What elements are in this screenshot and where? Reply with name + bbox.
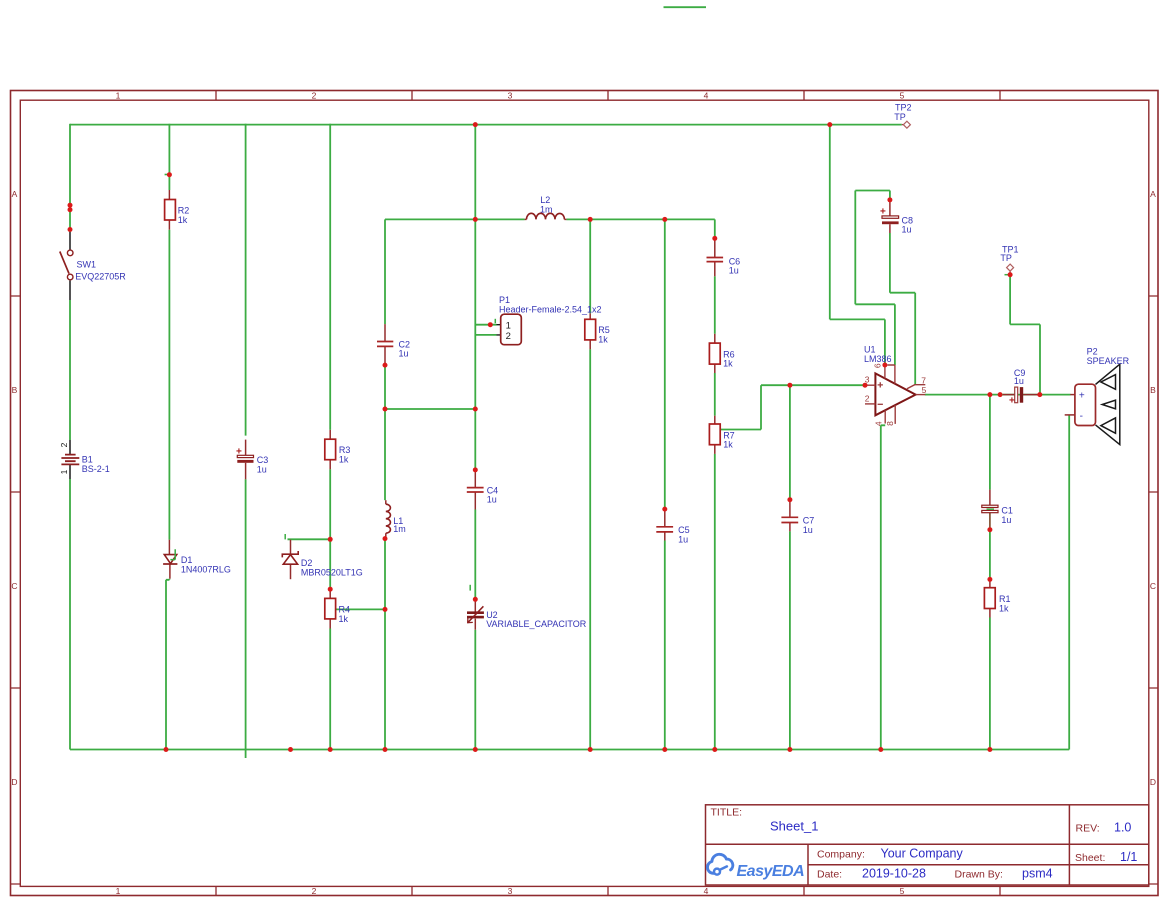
wire R5 to rail <box>589 349 591 749</box>
switch SW1 <box>60 232 126 300</box>
capacitor C6 <box>707 238 741 276</box>
capacitor C1 <box>982 490 1013 530</box>
node rail / L1 <box>383 747 388 752</box>
node C8 top <box>887 197 892 202</box>
node L2 rail / C5 <box>662 217 667 222</box>
node R4 top <box>328 587 333 592</box>
node C4 top <box>473 467 478 472</box>
node U2 top <box>473 597 478 602</box>
svg-text:1u: 1u <box>1014 376 1024 386</box>
svg-text:Sheet:: Sheet: <box>1075 852 1105 864</box>
svg-text:B: B <box>12 385 18 395</box>
node pin3 wire / C7 <box>787 383 792 388</box>
wire C4 to U2 <box>474 510 476 600</box>
node L1 bottom <box>383 536 388 541</box>
svg-text:SPEAKER: SPEAKER <box>1087 356 1130 366</box>
wire C3 column top <box>245 124 247 436</box>
node rail / U1 gnd <box>878 747 883 752</box>
inductor L1 <box>386 500 406 538</box>
capacitor C8 <box>880 200 913 235</box>
svg-text:LM386: LM386 <box>864 354 892 364</box>
svg-text:D: D <box>11 777 17 787</box>
svg-text:B: B <box>1150 385 1156 395</box>
svg-text:BS-2-1: BS-2-1 <box>82 464 110 474</box>
wire D2 top link <box>288 538 331 540</box>
svg-text:1u: 1u <box>1001 515 1011 525</box>
wire C5 column top <box>664 219 666 509</box>
svg-text:D1: D1 <box>181 555 193 565</box>
node L2 rail / R5 <box>588 217 593 222</box>
EasyEDA logo <box>707 854 732 874</box>
capacitor C2 <box>377 324 410 364</box>
svg-text:7: 7 <box>921 375 926 385</box>
wire D1 jog <box>166 579 169 750</box>
node U1 pin3 <box>863 383 868 388</box>
node rail / C5 <box>662 747 667 752</box>
row tick marks <box>11 296 1159 884</box>
svg-text:1k: 1k <box>339 455 349 465</box>
wire TP1 riser lower <box>1039 324 1041 394</box>
wire C6 column corner <box>714 219 716 238</box>
node R2 top <box>167 172 172 177</box>
speaker P2 <box>1065 347 1130 445</box>
resistor R7 <box>709 416 734 454</box>
test point TP2 <box>894 103 911 129</box>
wire link to L1 <box>384 409 386 500</box>
svg-text:1m: 1m <box>393 524 406 534</box>
node rail / R7 <box>712 747 717 752</box>
diode D1 <box>163 540 231 579</box>
inductor L2 <box>525 195 567 219</box>
wire R5 column top <box>589 219 591 313</box>
node top rail / U1 supply <box>827 122 832 127</box>
svg-text:2: 2 <box>312 91 317 101</box>
test point TP1 <box>1000 245 1018 275</box>
wire C5 to rail <box>664 541 666 750</box>
svg-text:MBR0520LT1G: MBR0520LT1G <box>301 567 363 577</box>
svg-text:1u: 1u <box>487 495 497 505</box>
capacitor C4 <box>467 470 498 510</box>
wire C7 to rail <box>789 531 791 749</box>
svg-text:1: 1 <box>59 469 69 474</box>
svg-text:2: 2 <box>506 331 511 342</box>
resistor R2 <box>165 175 190 230</box>
svg-text:Header-Female-2.54_1x2: Header-Female-2.54_1x2 <box>499 304 602 314</box>
svg-text:1: 1 <box>506 320 511 331</box>
wire P1 pin2 <box>475 334 496 336</box>
svg-text:VARIABLE_CAPACITOR: VARIABLE_CAPACITOR <box>486 619 587 629</box>
svg-text:1: 1 <box>116 886 121 896</box>
node link right <box>473 407 478 412</box>
node rail / C7 <box>787 747 792 752</box>
wire C8 top horizontal <box>855 190 890 192</box>
svg-text:C: C <box>11 581 17 591</box>
variable capacitor U2 <box>467 585 587 630</box>
wire U2 to rail <box>474 630 476 750</box>
svg-text:TP: TP <box>894 112 906 122</box>
wire R6 to R7 <box>714 373 716 416</box>
svg-text:EasyEDA: EasyEDA <box>737 863 805 880</box>
wire U1 pin7 feed horizontal <box>890 292 915 294</box>
resistor R4 <box>325 589 350 628</box>
wire C2 to C4 column <box>385 408 475 410</box>
svg-text:1u: 1u <box>399 349 409 359</box>
svg-text:2019-10-28: 2019-10-28 <box>862 867 926 881</box>
wire C7 column <box>789 385 791 500</box>
wire R7 to rail <box>714 454 716 750</box>
wire C1 to R1 <box>989 530 991 580</box>
svg-text:2: 2 <box>312 886 317 896</box>
wire speaker minus column <box>1068 415 1070 750</box>
svg-text:+: + <box>1009 396 1015 407</box>
svg-text:C: C <box>1150 581 1156 591</box>
wire R7 to riser <box>720 429 761 431</box>
node link left <box>383 407 388 412</box>
wire R7 riser vertical <box>760 385 762 429</box>
wire U1 supply riser <box>829 124 831 320</box>
wire C8 loop left vertical <box>854 191 856 305</box>
diode D2 <box>282 534 362 579</box>
svg-text:4: 4 <box>704 91 709 101</box>
svg-text:3: 3 <box>508 91 513 101</box>
svg-text:5: 5 <box>922 385 927 395</box>
node rail / R5 <box>588 747 593 752</box>
svg-text:TITLE:: TITLE: <box>711 807 743 819</box>
svg-text:4: 4 <box>873 421 883 426</box>
wire pin4 ground jog <box>881 425 885 749</box>
wire C8 top stub <box>889 191 891 200</box>
node U1 pin6 <box>882 363 887 368</box>
resistor R3 <box>325 430 351 469</box>
wire R3 column top <box>329 124 331 430</box>
svg-text:5: 5 <box>900 886 905 896</box>
wire pin6 stub <box>884 319 886 365</box>
svg-text:2: 2 <box>59 442 69 447</box>
svg-text:Your Company: Your Company <box>881 847 964 861</box>
node C7 top <box>787 497 792 502</box>
wire bottom ground rail <box>70 749 1069 751</box>
capacitor C7 <box>781 500 814 535</box>
wire R4 right link <box>336 608 385 610</box>
resistor R1 <box>984 579 1010 617</box>
svg-text:REV:: REV: <box>1076 823 1100 835</box>
svg-text:1u: 1u <box>902 225 912 235</box>
node P1 pin1 wire <box>488 322 493 327</box>
wire C8 bottom vertical <box>889 233 891 293</box>
svg-text:1/1: 1/1 <box>1120 850 1137 864</box>
node rail / R4 <box>328 747 333 752</box>
svg-text:1u: 1u <box>729 266 739 276</box>
svg-text:D2: D2 <box>301 558 313 568</box>
svg-text:3: 3 <box>508 886 513 896</box>
svg-text:1u: 1u <box>803 525 813 535</box>
wire TP1 riser <box>1009 275 1011 325</box>
svg-text:1m: 1m <box>540 205 553 215</box>
node top rail / C4 column <box>473 122 478 127</box>
wire C2 column top <box>384 219 386 324</box>
wire C1 column top <box>989 395 991 490</box>
node D2 wire / R3 column <box>328 537 333 542</box>
header P1 <box>495 295 601 345</box>
resistor R6 <box>709 334 734 373</box>
svg-text:psm4: psm4 <box>1022 867 1053 881</box>
title block <box>706 805 1149 885</box>
wire TP1 jog horizontal <box>1010 323 1040 325</box>
svg-text:1u: 1u <box>678 535 688 545</box>
svg-text:A: A <box>12 189 18 199</box>
wire L2 rail left part <box>385 218 525 220</box>
node L2 rail / C4 column <box>473 217 478 222</box>
svg-text:1N4007RLG: 1N4007RLG <box>181 565 231 575</box>
wire C3 column bottom crossing rail <box>245 479 247 758</box>
wire L1 bottom to rail <box>384 539 386 750</box>
svg-text:2: 2 <box>865 393 870 403</box>
svg-text:1u: 1u <box>257 464 267 474</box>
svg-text:1.0: 1.0 <box>1114 821 1131 835</box>
node output / TP1 riser <box>1037 392 1042 397</box>
capacitor C9 <box>1003 368 1038 407</box>
node C5 top <box>662 507 667 512</box>
svg-text:Company:: Company: <box>817 849 865 861</box>
node R1 top <box>987 577 992 582</box>
wire left column upper <box>69 124 71 232</box>
node C6 top <box>712 236 717 241</box>
node R4 wire / L1 column <box>383 607 388 612</box>
wire floating top segment <box>664 6 707 8</box>
wire pin1 riser <box>894 304 896 365</box>
svg-text:1k: 1k <box>339 614 349 624</box>
wire pin7 riser <box>914 293 916 385</box>
node output / C9 left <box>998 392 1003 397</box>
wire C4 column top <box>474 124 476 468</box>
wire C2 bottom to link <box>384 364 386 409</box>
svg-text:D: D <box>1150 777 1156 787</box>
node rail / R1 <box>987 747 992 752</box>
wire U1 pin3 input <box>761 384 865 386</box>
wire P1 pin1 <box>475 324 496 326</box>
wire R2 column top <box>168 124 170 190</box>
wire R3 to R4 <box>329 469 331 589</box>
svg-text:1k: 1k <box>999 603 1009 613</box>
svg-text:EVQ22705R: EVQ22705R <box>75 271 126 281</box>
capacitor C5 <box>656 509 689 544</box>
svg-text:+: + <box>1079 391 1085 402</box>
wire C6 to R6 <box>714 276 716 334</box>
resistor R5 <box>585 313 610 349</box>
svg-text:Sheet_1: Sheet_1 <box>770 819 818 834</box>
node rail / D2 <box>288 747 293 752</box>
svg-text:TP: TP <box>1000 253 1012 263</box>
svg-text:1k: 1k <box>598 334 608 344</box>
battery B1 <box>59 440 110 479</box>
wire U1 output <box>925 394 1071 396</box>
wire R4 to rail <box>329 629 331 750</box>
svg-text:1k: 1k <box>178 215 188 225</box>
wire U1 pin1 feed horizontal <box>855 303 895 305</box>
wire left column between switch and battery <box>69 300 71 440</box>
svg-text:1k: 1k <box>723 359 733 369</box>
node SW1 upper dots <box>68 203 73 208</box>
node rail / D1 <box>164 747 169 752</box>
svg-text:Drawn By:: Drawn By: <box>955 869 1003 881</box>
node rail / U2 <box>473 747 478 752</box>
wire L2 rail right part <box>566 218 714 220</box>
svg-text:Date:: Date: <box>817 869 842 881</box>
wire top power rail <box>70 124 902 126</box>
svg-text:8: 8 <box>885 421 895 426</box>
node output / C1 column <box>987 392 992 397</box>
svg-text:6: 6 <box>873 363 883 368</box>
wire U1 pin6 feed horizontal <box>830 318 885 320</box>
wire R1 to rail <box>989 618 991 750</box>
svg-text:A: A <box>1150 189 1156 199</box>
svg-text:-: - <box>1080 411 1083 422</box>
capacitor C3 <box>236 440 268 480</box>
op-amp U1 LM386 <box>864 345 927 427</box>
svg-text:1k: 1k <box>723 440 733 450</box>
svg-text:1: 1 <box>116 91 121 101</box>
wire R2 to D1 <box>168 230 170 540</box>
wire left column below battery <box>69 479 71 750</box>
node TP1 pin <box>1008 272 1013 277</box>
svg-text:4: 4 <box>704 886 709 896</box>
node C2 bottom <box>383 363 388 368</box>
node C1 bottom <box>987 527 992 532</box>
svg-text:SW1: SW1 <box>77 259 97 269</box>
column tick marks <box>216 91 1000 896</box>
svg-text:5: 5 <box>900 91 905 101</box>
